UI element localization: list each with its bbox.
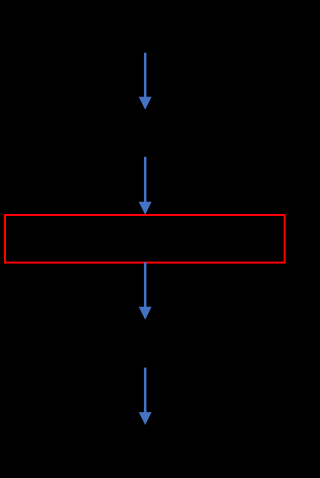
flow arrow 2 <box>139 157 152 215</box>
red highlight rectangle <box>5 215 285 263</box>
flow arrow 4 <box>139 368 152 425</box>
flow arrow 1 <box>139 53 152 110</box>
flow arrow 3 <box>139 262 152 319</box>
